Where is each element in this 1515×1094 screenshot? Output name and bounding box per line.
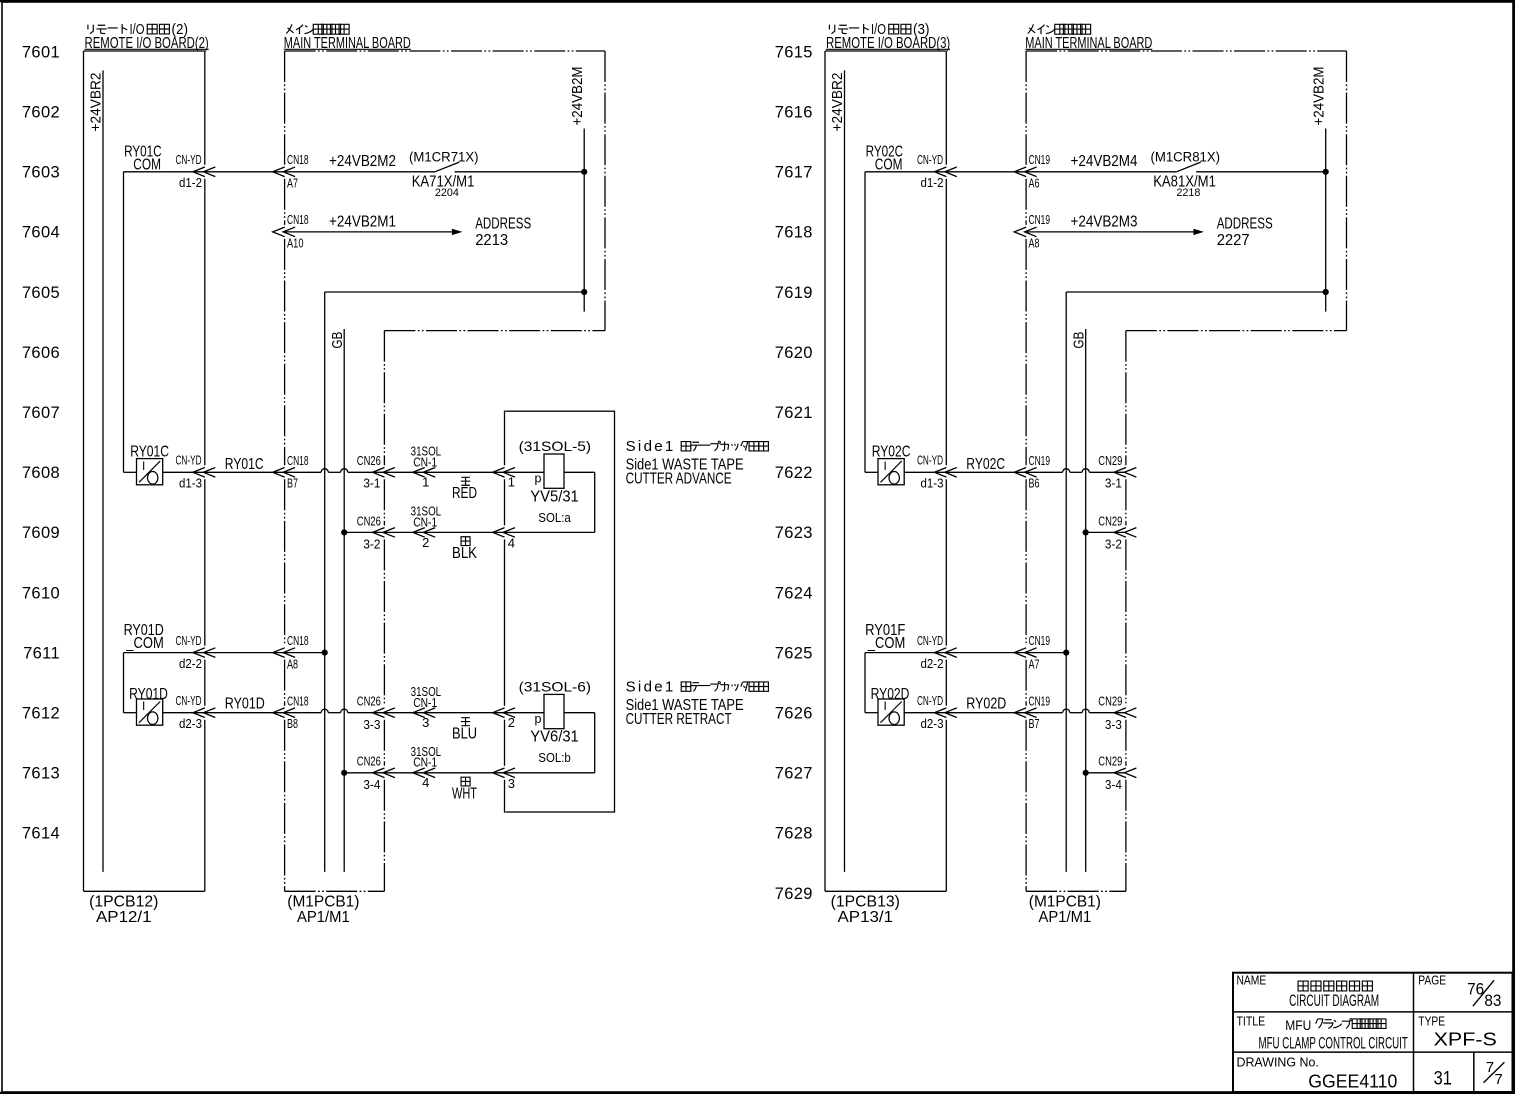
svg-text:CN29: CN29 bbox=[1098, 694, 1122, 709]
+24VB2M power rail bbox=[569, 67, 586, 312]
svg-text:+24VB2M: +24VB2M bbox=[1310, 67, 1327, 126]
svg-text:ADDRESS: ADDRESS bbox=[1217, 216, 1273, 233]
svg-text:+24VBR2: +24VBR2 bbox=[829, 73, 846, 132]
relay RY02C coil-common loop wire bbox=[124, 172, 205, 473]
connector CN-YD pin d1-2 arrows bbox=[917, 153, 957, 190]
svg-text:7: 7 bbox=[1495, 1071, 1503, 1088]
connector 31SOL CN-1 pin 1 arrows bbox=[411, 444, 442, 490]
title block TYPE cell: XPF-S bbox=[1418, 1015, 1496, 1050]
svg-text:CN18: CN18 bbox=[287, 212, 309, 227]
wire relay RY02C output bbox=[124, 471, 205, 473]
svg-text:d2-3: d2-3 bbox=[921, 717, 944, 731]
svg-text:3: 3 bbox=[508, 776, 515, 791]
svg-text:1: 1 bbox=[422, 475, 429, 490]
svg-text:CIRCUIT DIAGRAM: CIRCUIT DIAGRAM bbox=[1289, 992, 1379, 1010]
svg-text:7624: 7624 bbox=[775, 584, 813, 602]
relay RY01D I/O module bbox=[129, 686, 168, 725]
svg-text:3-2: 3-2 bbox=[1105, 537, 1122, 552]
svg-text:_COM: _COM bbox=[867, 635, 905, 652]
svg-text:B6: B6 bbox=[1029, 476, 1040, 491]
wire RY03C signal bbox=[946, 456, 1026, 473]
wire with jumps over bus lines bbox=[285, 469, 385, 473]
board reference (M1PCB1) AP1/M1 bbox=[1029, 894, 1101, 926]
title block DRAWING No. cell: GGEE4110 bbox=[1237, 1056, 1398, 1092]
svg-text:7607: 7607 bbox=[22, 404, 60, 422]
main terminal board chain-line boundary (bottom edge) bbox=[285, 890, 385, 892]
wire relay RY03C output bbox=[865, 471, 946, 473]
svg-text:_COM: _COM bbox=[126, 156, 161, 173]
svg-text:RED: RED bbox=[452, 485, 477, 502]
description CUTTER ADVANCE bbox=[626, 439, 769, 488]
connector CN29 pin 3-4 arrows bbox=[1098, 754, 1136, 792]
svg-text:4: 4 bbox=[422, 775, 429, 790]
svg-text:7606: 7606 bbox=[22, 344, 60, 362]
wire with jumps over bus lines bbox=[285, 709, 385, 713]
connector CN18 pin B8 arrows bbox=[273, 694, 309, 732]
svg-text:A10: A10 bbox=[287, 236, 304, 251]
solenoid valve 31SOL-5 coil YV5/31 bbox=[505, 438, 592, 525]
connector CN29 pin 3-2 arrows bbox=[1098, 513, 1136, 551]
svg-text:SOL:a: SOL:a bbox=[538, 510, 571, 525]
main terminal board chain-line boundary (CN29 edge) bbox=[1125, 331, 1127, 892]
svg-text:CN-YD: CN-YD bbox=[917, 694, 943, 708]
svg-text:RY02D: RY02D bbox=[871, 686, 910, 703]
svg-text:Side1: Side1 bbox=[626, 439, 676, 455]
solenoid assembly 31SOL outline box bbox=[505, 411, 615, 812]
connector 31SOL CN-1 pin 2 arrows bbox=[411, 504, 442, 550]
wire GB return bbox=[344, 772, 384, 774]
wire CN18 A to relay common bbox=[205, 171, 435, 173]
svg-text:WHT: WHT bbox=[452, 786, 477, 803]
remote I/O board(2) label (Japanese) bbox=[88, 22, 188, 38]
label RY01D _COM bbox=[124, 622, 164, 652]
svg-text:(31SOL-5): (31SOL-5) bbox=[519, 438, 592, 454]
wire GB return bbox=[344, 531, 384, 533]
wire coil return loop bbox=[505, 472, 595, 532]
wire to +24V bus junction bbox=[285, 650, 328, 656]
svg-text:7619: 7619 bbox=[775, 284, 813, 302]
board reference (1PCB13) AP13/1 bbox=[831, 894, 900, 926]
wire relay RY01D output bbox=[124, 712, 205, 714]
connector CN19 pin A6 arrows bbox=[1014, 152, 1050, 191]
svg-text:YV5/31: YV5/31 bbox=[530, 488, 579, 505]
svg-text:3-1: 3-1 bbox=[1105, 476, 1122, 491]
svg-text:2: 2 bbox=[508, 715, 515, 730]
svg-text:CN19: CN19 bbox=[1029, 694, 1051, 709]
right wire-number column 7615-7629 bbox=[775, 43, 813, 902]
+24VBR2 power rail bbox=[88, 70, 105, 872]
svg-text:PAGE: PAGE bbox=[1418, 974, 1446, 988]
svg-text:A7: A7 bbox=[287, 176, 298, 191]
svg-text:CN19: CN19 bbox=[1029, 152, 1051, 167]
svg-text:7601: 7601 bbox=[22, 43, 60, 61]
svg-text:_COM: _COM bbox=[125, 635, 163, 652]
svg-text:ADDRESS: ADDRESS bbox=[475, 216, 531, 233]
net label +24VB2M4 bbox=[1071, 153, 1138, 170]
connector CN18 pin A7 arrows bbox=[273, 152, 309, 191]
MAIN TERMINAL BOARD label with underline bbox=[284, 35, 411, 52]
relay RY02D I/O module bbox=[871, 686, 910, 725]
title block frame bbox=[1233, 973, 1513, 1092]
connector CN19 pin B6 arrows bbox=[1014, 453, 1050, 490]
connector CN29 pin 3-1 arrows bbox=[1098, 453, 1136, 490]
main terminal board chain-line boundary (step edge) bbox=[1126, 330, 1347, 332]
wire color label RED bbox=[452, 477, 477, 502]
svg-text:7628: 7628 bbox=[775, 825, 813, 843]
svg-text:CUTTER ADVANCE: CUTTER ADVANCE bbox=[626, 471, 732, 488]
svg-text:2227: 2227 bbox=[1217, 232, 1250, 249]
title block TITLE cell: MFU CLAMP CONTROL CIRCUIT bbox=[1237, 1015, 1408, 1053]
svg-text:CN26: CN26 bbox=[357, 513, 381, 528]
svg-text:d1-2: d1-2 bbox=[921, 176, 944, 190]
connector 31SOL CN-1 pin 4 arrows bbox=[411, 744, 442, 790]
svg-text:7609: 7609 bbox=[22, 524, 60, 542]
svg-text:7604: 7604 bbox=[22, 224, 60, 242]
svg-text:CN18: CN18 bbox=[287, 694, 309, 709]
wire RY02C signal bbox=[205, 456, 285, 473]
svg-text:TITLE: TITLE bbox=[1237, 1015, 1266, 1029]
svg-text:7618: 7618 bbox=[775, 224, 813, 242]
svg-text:+24VB2M4: +24VB2M4 bbox=[1071, 153, 1138, 170]
svg-text:AP13/1: AP13/1 bbox=[838, 909, 894, 926]
svg-text:7621: 7621 bbox=[775, 404, 813, 422]
svg-text:CN19: CN19 bbox=[1029, 212, 1051, 227]
svg-text:CN18: CN18 bbox=[287, 152, 309, 167]
main terminal board chain-line boundary (CN26 edge) bbox=[383, 331, 385, 892]
junction on +24VB2M rail bbox=[581, 169, 587, 175]
title block sheet number 31 bbox=[1434, 1069, 1452, 1090]
label RY02C _COM bbox=[124, 143, 162, 173]
wire +24V feed to GB area bbox=[325, 289, 588, 295]
svg-text:3-2: 3-2 bbox=[363, 537, 380, 552]
svg-text:DRAWING No.: DRAWING No. bbox=[1237, 1056, 1319, 1070]
svg-text:(M1CR81X): (M1CR81X) bbox=[1151, 150, 1221, 165]
connector 31SOL CN-1 pin 3 arrows bbox=[411, 684, 442, 730]
svg-text:4: 4 bbox=[508, 536, 515, 551]
svg-text:BLK: BLK bbox=[452, 545, 478, 562]
main terminal board chain-line boundary (upper right edge) bbox=[1346, 51, 1348, 331]
+24VBR2 power rail bbox=[829, 70, 846, 872]
label ADDRESS 2213 bbox=[475, 216, 531, 250]
svg-text:RY01C: RY01C bbox=[225, 456, 264, 473]
svg-text:CN-YD: CN-YD bbox=[917, 153, 943, 167]
svg-text:CN-YD: CN-YD bbox=[917, 454, 943, 468]
svg-text:A6: A6 bbox=[1029, 176, 1040, 191]
svg-text:+24VB2M2: +24VB2M2 bbox=[329, 153, 396, 170]
relay RY03C coil-common loop wire bbox=[865, 172, 946, 473]
wire +24VB2M3 address line with arrow bbox=[1014, 212, 1204, 251]
wire RY02D signal bbox=[946, 696, 1026, 713]
svg-text:7611: 7611 bbox=[23, 644, 60, 662]
svg-text:3-3: 3-3 bbox=[363, 717, 380, 732]
connector CN19 pin B7 arrows bbox=[1014, 694, 1050, 732]
relay RY01F coil-common loop wire bbox=[865, 653, 946, 713]
svg-text:3-1: 3-1 bbox=[363, 476, 380, 491]
svg-text:3: 3 bbox=[422, 715, 429, 730]
wire relay RY02D output bbox=[865, 712, 946, 714]
wire color label BLU bbox=[452, 718, 477, 743]
svg-text:7610: 7610 bbox=[22, 584, 60, 602]
svg-text:RY01D: RY01D bbox=[225, 696, 265, 713]
svg-text:CN-YD: CN-YD bbox=[176, 634, 202, 648]
svg-text:(M1CR71X): (M1CR71X) bbox=[409, 150, 479, 165]
board reference (M1PCB1) AP1/M1 bbox=[287, 894, 359, 926]
svg-text:(31SOL-6): (31SOL-6) bbox=[519, 678, 592, 694]
title block NAME cell: CIRCUIT DIAGRAM bbox=[1237, 974, 1380, 1011]
svg-text:AP1/M1: AP1/M1 bbox=[297, 909, 350, 926]
svg-text:CN19: CN19 bbox=[1029, 633, 1051, 648]
svg-text:7614: 7614 bbox=[22, 825, 60, 843]
remote I/O board(3) label (Japanese) bbox=[829, 22, 929, 38]
main terminal board chain-line boundary (upper right edge) bbox=[604, 51, 606, 331]
svg-text:+24VB2M: +24VB2M bbox=[569, 67, 586, 126]
relay contact (M1CR81X) KA81X/M1 bbox=[1151, 150, 1326, 200]
svg-text:I: I bbox=[884, 459, 887, 473]
label ADDRESS 2227 bbox=[1217, 216, 1273, 250]
connector CN19 pin A7 arrows bbox=[1014, 633, 1050, 671]
svg-text:83: 83 bbox=[1484, 991, 1501, 1010]
svg-text:7605: 7605 bbox=[22, 284, 60, 302]
MAIN TERMINAL BOARD label with underline bbox=[1025, 35, 1152, 52]
svg-text:+24VBR2: +24VBR2 bbox=[88, 73, 105, 132]
svg-text:MFU CLAMP CONTROL CIRCUIT: MFU CLAMP CONTROL CIRCUIT bbox=[1259, 1034, 1408, 1052]
svg-text:CN-1: CN-1 bbox=[413, 514, 437, 529]
svg-text:CN-YD: CN-YD bbox=[176, 694, 202, 708]
connector CN18 pin A8 arrows bbox=[273, 633, 309, 671]
main terminal board label (Japanese) bbox=[1028, 24, 1091, 34]
main terminal board chain-line boundary (left edge) bbox=[284, 51, 286, 891]
svg-text:d2-2: d2-2 bbox=[179, 657, 202, 671]
wire to +24V bus junction bbox=[1026, 650, 1069, 656]
solenoid box pin 4 arrows bbox=[493, 528, 515, 551]
svg-text:d2-2: d2-2 bbox=[921, 657, 944, 671]
svg-text:CN19: CN19 bbox=[1029, 453, 1051, 468]
relay RY03C I/O module bbox=[872, 444, 911, 485]
wire CN18 A8 to relay common bbox=[205, 652, 285, 654]
svg-text:2: 2 bbox=[422, 535, 429, 550]
solenoid box pin 1 arrows bbox=[493, 468, 515, 490]
svg-text:AP1/M1: AP1/M1 bbox=[1039, 909, 1092, 926]
main terminal board chain-line boundary (bottom edge) bbox=[1026, 890, 1126, 892]
svg-text:RY02C: RY02C bbox=[872, 444, 911, 461]
title block PAGE cell: 76/83 bbox=[1418, 974, 1501, 1011]
GB bus vertical with label bbox=[1071, 329, 1088, 872]
wire return segment bbox=[384, 772, 504, 774]
solenoid box pin 2 arrows bbox=[493, 708, 515, 730]
svg-text:CN-1: CN-1 bbox=[413, 695, 437, 710]
svg-text:7616: 7616 bbox=[775, 104, 813, 122]
svg-text:A8: A8 bbox=[1029, 236, 1040, 251]
svg-text:I: I bbox=[142, 459, 145, 473]
wire with jumps over bus lines bbox=[1026, 709, 1126, 713]
svg-text:CN-YD: CN-YD bbox=[917, 634, 943, 648]
svg-text:AP12/1: AP12/1 bbox=[96, 909, 152, 926]
wire 31SOL CN-1 pin 1 segment bbox=[384, 471, 504, 473]
svg-text:+24VB2M3: +24VB2M3 bbox=[1071, 213, 1138, 230]
svg-text:7623: 7623 bbox=[775, 524, 813, 542]
svg-text:XPF-S: XPF-S bbox=[1434, 1029, 1497, 1049]
svg-text:GB: GB bbox=[329, 332, 346, 349]
svg-text:p: p bbox=[535, 472, 542, 486]
svg-text:7626: 7626 bbox=[775, 705, 813, 723]
svg-text:7622: 7622 bbox=[775, 464, 813, 482]
wire 31SOL CN-1 pin 3 segment bbox=[384, 712, 504, 714]
svg-text:7603: 7603 bbox=[22, 164, 60, 182]
junction on GB bus bbox=[341, 770, 347, 776]
main terminal board chain-line boundary (step edge) bbox=[384, 330, 605, 332]
svg-text:MFU: MFU bbox=[1285, 1017, 1311, 1033]
svg-text:7602: 7602 bbox=[22, 104, 60, 122]
svg-text:7615: 7615 bbox=[775, 43, 813, 61]
REMOTE I/O BOARD(2) label with underline bbox=[85, 35, 209, 52]
svg-text:B7: B7 bbox=[287, 476, 298, 491]
svg-text:7625: 7625 bbox=[775, 644, 813, 662]
svg-text:CN-1: CN-1 bbox=[413, 454, 437, 469]
svg-text:GB: GB bbox=[1071, 332, 1088, 349]
svg-text:CN-YD: CN-YD bbox=[176, 454, 202, 468]
connector CN26 pin 3-4 arrows bbox=[357, 754, 395, 792]
svg-text:1: 1 bbox=[508, 475, 515, 490]
svg-text:CN26: CN26 bbox=[357, 453, 381, 468]
relay RY02C I/O module bbox=[130, 444, 169, 485]
svg-text:d1-3: d1-3 bbox=[921, 477, 944, 491]
GB bus vertical with label bbox=[329, 329, 346, 872]
svg-text:CN-YD: CN-YD bbox=[176, 153, 202, 167]
svg-text:p: p bbox=[535, 712, 542, 726]
svg-text:CN-1: CN-1 bbox=[413, 755, 437, 770]
relay RY01D coil-common loop wire bbox=[124, 653, 205, 713]
svg-text:_COM: _COM bbox=[867, 156, 902, 173]
solenoid valve 31SOL-6 coil YV6/31 bbox=[505, 678, 592, 765]
board reference (1PCB12) AP12/1 bbox=[89, 894, 158, 926]
svg-text:BLU: BLU bbox=[452, 726, 477, 743]
left wire-number column 7601-7614 bbox=[22, 43, 60, 842]
svg-text:B7: B7 bbox=[1029, 716, 1040, 731]
connector CN26 pin 3-1 arrows bbox=[357, 453, 395, 490]
connector CN-YD pin d1-3 arrows bbox=[917, 454, 957, 491]
svg-text:3-4: 3-4 bbox=[1105, 777, 1122, 792]
remote I/O board(3) outline box AP13/1 bbox=[825, 51, 946, 891]
svg-text:+24VB2M1: +24VB2M1 bbox=[329, 213, 396, 230]
svg-text:CN18: CN18 bbox=[287, 633, 309, 648]
svg-text:2204: 2204 bbox=[435, 187, 459, 199]
svg-text:d2-3: d2-3 bbox=[179, 717, 202, 731]
connector CN-YD pin d2-3 arrows bbox=[917, 694, 957, 731]
svg-text:A7: A7 bbox=[1029, 656, 1040, 671]
svg-text:YV6/31: YV6/31 bbox=[530, 729, 579, 746]
main terminal board label (Japanese) bbox=[286, 24, 349, 34]
svg-text:3-3: 3-3 bbox=[1105, 717, 1122, 732]
svg-text:B8: B8 bbox=[287, 716, 298, 731]
wire CN19 A7 to relay common bbox=[946, 652, 1026, 654]
wire return segment bbox=[384, 531, 504, 533]
remote I/O board(2) outline box AP12/1 bbox=[84, 51, 205, 891]
svg-text:7608: 7608 bbox=[22, 464, 60, 482]
wire with jumps over bus lines bbox=[1026, 469, 1126, 473]
svg-text:7620: 7620 bbox=[775, 344, 813, 362]
+24V bus vertical bbox=[1065, 292, 1067, 872]
wire coil return loop bbox=[505, 713, 595, 773]
svg-text:CN29: CN29 bbox=[1098, 513, 1122, 528]
svg-text:RY02D: RY02D bbox=[966, 696, 1006, 713]
wire RY01D signal bbox=[205, 696, 285, 713]
main terminal board chain-line boundary (left edge) bbox=[1025, 51, 1027, 891]
wire color label WHT bbox=[452, 777, 477, 802]
svg-text:7612: 7612 bbox=[22, 705, 60, 723]
junction on +24VB2M rail bbox=[1323, 169, 1329, 175]
svg-text:3-4: 3-4 bbox=[363, 777, 380, 792]
svg-text:7627: 7627 bbox=[775, 765, 813, 783]
wire GB return bbox=[1086, 772, 1126, 774]
svg-text:A8: A8 bbox=[287, 656, 298, 671]
svg-text:TYPE: TYPE bbox=[1418, 1015, 1445, 1029]
svg-text:RY01C: RY01C bbox=[130, 444, 169, 461]
svg-text:GGEE4110: GGEE4110 bbox=[1308, 1072, 1397, 1092]
REMOTE I/O BOARD(3) label with underline bbox=[826, 35, 950, 52]
svg-text:7613: 7613 bbox=[22, 765, 60, 783]
svg-text:7617: 7617 bbox=[775, 164, 813, 182]
label RY03C _COM bbox=[866, 143, 904, 173]
connector CN-YD pin d2-2 arrows bbox=[176, 634, 216, 671]
svg-text:2213: 2213 bbox=[475, 232, 508, 249]
wire GB return bbox=[1086, 531, 1126, 533]
connector CN26 pin 3-3 arrows bbox=[357, 694, 395, 732]
svg-text:SOL:b: SOL:b bbox=[538, 750, 571, 765]
main terminal board chain-line boundary (top edge) bbox=[1026, 50, 1346, 52]
wire +24V feed to GB area bbox=[1066, 289, 1329, 295]
+24VB2M power rail bbox=[1310, 67, 1327, 312]
svg-text:2218: 2218 bbox=[1176, 187, 1200, 199]
junction on GB bus bbox=[341, 529, 347, 535]
svg-text:CN29: CN29 bbox=[1098, 453, 1122, 468]
main terminal board chain-line boundary (top edge) bbox=[285, 50, 605, 52]
connector CN-YD pin d1-3 arrows bbox=[176, 454, 216, 491]
wire +24VB2M1 address line with arrow bbox=[273, 212, 463, 251]
connector CN29 pin 3-3 arrows bbox=[1098, 694, 1136, 732]
svg-text:7629: 7629 bbox=[775, 885, 813, 903]
svg-text:d1-3: d1-3 bbox=[179, 477, 202, 491]
connector CN-YD pin d1-2 arrows bbox=[176, 153, 216, 190]
svg-text:Side1: Side1 bbox=[626, 679, 676, 695]
description CUTTER RETRACT bbox=[626, 679, 769, 728]
connector CN-YD pin d2-3 arrows bbox=[176, 694, 216, 731]
label RY01F _COM bbox=[865, 622, 905, 652]
connector CN-YD pin d2-2 arrows bbox=[917, 634, 957, 671]
relay contact (M1CR71X) KA71X/M1 bbox=[409, 150, 584, 200]
wire color label BLK bbox=[452, 537, 478, 562]
svg-text:RY01D: RY01D bbox=[129, 686, 168, 703]
svg-text:d1-2: d1-2 bbox=[179, 176, 202, 190]
svg-text:CUTTER RETRACT: CUTTER RETRACT bbox=[626, 711, 732, 728]
svg-text:CN26: CN26 bbox=[357, 694, 381, 709]
net label +24VB2M2 bbox=[329, 153, 396, 170]
junction on GB bus bbox=[1083, 770, 1089, 776]
wire CN19 A to relay common bbox=[946, 171, 1176, 173]
svg-text:CN18: CN18 bbox=[287, 453, 309, 468]
svg-text:NAME: NAME bbox=[1237, 974, 1267, 988]
solenoid box pin 3 arrows bbox=[493, 768, 515, 791]
+24V bus vertical bbox=[324, 292, 326, 872]
connector CN18 pin B7 arrows bbox=[273, 453, 309, 490]
svg-text:CN29: CN29 bbox=[1098, 754, 1122, 769]
svg-text:RY02C: RY02C bbox=[966, 456, 1005, 473]
junction on GB bus bbox=[1083, 529, 1089, 535]
svg-text:CN26: CN26 bbox=[357, 754, 381, 769]
svg-text:31: 31 bbox=[1434, 1069, 1452, 1090]
title block sheet 7/7 bbox=[1484, 1059, 1505, 1088]
connector CN26 pin 3-2 arrows bbox=[357, 513, 395, 551]
